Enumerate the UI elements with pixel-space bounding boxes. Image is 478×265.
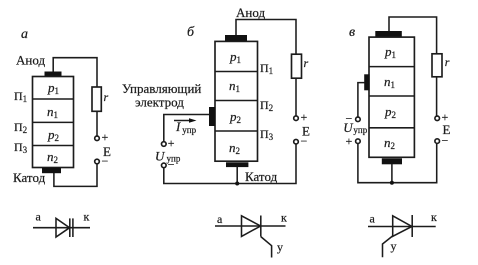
anode electrode bar — [45, 72, 62, 77]
svg-text:r: r — [304, 56, 309, 70]
svg-text:а: а — [36, 210, 42, 224]
terminal + (Uупр plus) — [356, 139, 361, 144]
junction line П2 — [215, 100, 258, 102]
svg-text:а: а — [370, 212, 376, 226]
wire resistor to + terminal — [436, 77, 438, 116]
junction line 1 — [369, 66, 414, 68]
terminal + (battery E plus) — [294, 116, 299, 121]
wire control electrode to Uупр — [164, 115, 210, 142]
resistor r — [292, 54, 302, 78]
wire anode to resistor — [389, 17, 437, 54]
svg-text:у: у — [277, 240, 283, 254]
p-n-p-n structure box — [215, 41, 258, 161]
svg-text:к: к — [431, 210, 437, 224]
symbol cathode bar 2 — [72, 218, 74, 237]
junction line П3 — [33, 145, 74, 147]
svg-text:−: − — [442, 134, 449, 148]
wire control electrode to Uупр — [358, 83, 365, 117]
wire Uупр plus to bottom rail — [358, 143, 437, 182]
cathode stub wire — [391, 164, 393, 183]
wire minus terminal to cathode — [54, 164, 97, 187]
svg-text:+: + — [102, 130, 109, 144]
junction dot — [235, 182, 239, 186]
svg-text:Катод: Катод — [13, 170, 46, 185]
svg-text:Катод: Катод — [245, 169, 278, 184]
junction dot — [390, 181, 394, 185]
svg-text:r: r — [104, 90, 109, 104]
control electrode bar — [364, 74, 369, 90]
svg-text:Управляющий: Управляющий — [122, 81, 201, 96]
junction line П1 — [215, 71, 258, 73]
svg-text:а: а — [21, 27, 28, 42]
svg-text:упр: упр — [182, 125, 196, 135]
symbol triangle — [56, 218, 70, 237]
cathode electrode bar — [226, 162, 248, 167]
svg-text:I: I — [175, 119, 181, 134]
svg-text:+: + — [346, 134, 353, 148]
p-n-p-n structure box — [33, 77, 74, 168]
wire anode to resistor — [53, 58, 97, 88]
svg-text:Анод: Анод — [16, 53, 45, 68]
terminal + (battery E plus) — [435, 116, 440, 121]
svg-text:у: у — [391, 239, 397, 253]
junction line 3 — [369, 127, 414, 129]
svg-text:+: + — [301, 110, 308, 124]
svg-text:в: в — [349, 25, 355, 40]
terminal + (Uупр plus) — [162, 142, 167, 147]
svg-text:б: б — [187, 25, 195, 40]
svg-text:−: − — [168, 158, 175, 172]
symbol triangle — [242, 216, 261, 237]
anode electrode bar — [375, 31, 402, 37]
svg-text:а: а — [217, 212, 223, 226]
svg-text:Анод: Анод — [236, 5, 265, 20]
junction line П1 — [33, 98, 74, 100]
symbol triangle — [393, 216, 412, 237]
symbol gate wire — [261, 237, 272, 258]
control electrode bar — [209, 107, 215, 126]
symbol lead line a-k — [33, 227, 90, 229]
svg-text:упр: упр — [353, 125, 367, 135]
symbol lead line a-k — [368, 226, 436, 228]
terminal − (Uупр minus) — [162, 163, 167, 168]
symbol cathode bar — [260, 216, 262, 237]
cathode electrode bar — [42, 168, 61, 173]
terminal − (battery E minus) — [435, 139, 440, 144]
symbol gate wire — [383, 236, 393, 257]
symbol cathode bar — [411, 215, 413, 237]
cathode stub wire — [236, 167, 238, 184]
svg-text:r: r — [445, 55, 450, 69]
svg-text:−: − — [301, 134, 308, 148]
junction line П2 — [33, 121, 74, 123]
resistor r — [92, 87, 101, 111]
anode electrode bar — [225, 35, 247, 41]
svg-text:U: U — [155, 148, 166, 163]
resistor r — [432, 54, 442, 77]
terminal − (battery E minus) — [95, 159, 100, 164]
svg-text:к: к — [84, 210, 90, 224]
symbol lead line a-k — [215, 225, 286, 227]
wire anode to resistor — [236, 20, 296, 56]
symbol cathode bar 1 — [69, 218, 71, 237]
svg-text:+: + — [168, 136, 175, 150]
svg-text:электрод: электрод — [135, 95, 184, 110]
p-n-p-n structure box — [369, 37, 414, 157]
current arrow Iупр — [174, 120, 192, 122]
svg-text:−: − — [102, 154, 109, 168]
cathode electrode bar — [382, 158, 402, 164]
wire resistor to + terminal — [295, 78, 297, 116]
junction line 2 — [369, 95, 414, 97]
terminal + (battery E plus) — [95, 136, 100, 141]
svg-text:к: к — [281, 211, 287, 225]
wire Uупр minus to bottom rail — [164, 144, 296, 184]
junction line П3 — [215, 130, 258, 132]
wire resistor to + terminal — [96, 111, 98, 136]
terminal − (Uупр minus) — [356, 117, 361, 122]
terminal − (battery E minus) — [294, 139, 299, 144]
